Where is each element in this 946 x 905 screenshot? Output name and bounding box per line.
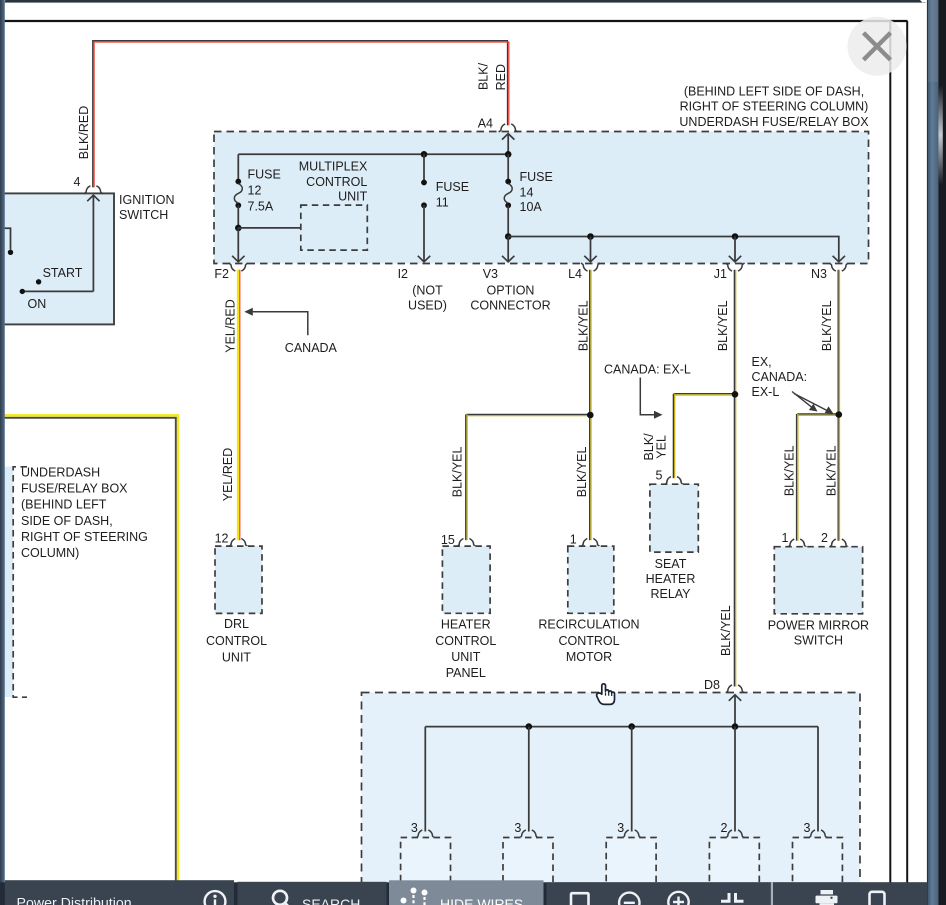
- A4 connector bump: [499, 124, 518, 132]
- label FUSE 11: [436, 180, 469, 210]
- svg-text:J1: J1: [714, 267, 727, 281]
- fuse F14 element: [504, 179, 512, 209]
- left window bar: [0, 0, 5, 905]
- svg-text:COLUMN): COLUMN): [21, 546, 79, 560]
- svg-text:UNDERDASH FUSE/RELAY BOX: UNDERDASH FUSE/RELAY BOX: [679, 115, 869, 129]
- svg-text:(BEHIND LEFT SIDE OF DASH,: (BEHIND LEFT SIDE OF DASH,: [684, 85, 864, 99]
- label BLK/YEL (mirror pin2): [825, 445, 839, 496]
- label BLK/YEL (J1 upper): [716, 300, 730, 351]
- svg-text:CONTROL: CONTROL: [558, 634, 619, 648]
- svg-text:ON: ON: [28, 297, 47, 311]
- label YEL/RED (upper): [224, 299, 238, 353]
- fuse 14 feed wire: [507, 154, 509, 181]
- svg-text:CONNECTOR: CONNECTOR: [470, 299, 550, 313]
- wire BLK/YEL branch to mirror pin1: [797, 414, 839, 541]
- EX pointer arrows: [792, 392, 834, 414]
- svg-text:RIGHT OF STEERING COLUMN): RIGHT OF STEERING COLUMN): [680, 100, 869, 114]
- label (BEHIND LEFT SIDE OF DASH...): [679, 85, 869, 130]
- svg-text:7.5A: 7.5A: [248, 200, 274, 214]
- svg-text:MULTIPLEX: MULTIPLEX: [299, 159, 368, 173]
- component box 1 (bottom): [401, 838, 451, 898]
- J1 drop wire + arrow: [729, 237, 741, 263]
- F2 output wire + arrow: [232, 228, 244, 262]
- svg-text:BLK/YEL: BLK/YEL: [825, 445, 839, 496]
- V3 output wire + arrow: [502, 237, 514, 263]
- svg-text:MOTOR: MOTOR: [566, 650, 612, 664]
- label IGNITION SWITCH: [119, 193, 175, 222]
- label POWER MIRROR SWITCH: [768, 618, 869, 647]
- highlighted box (yellow outline component): [0, 415, 178, 905]
- info icon: [205, 891, 226, 905]
- label START: [43, 266, 83, 280]
- fuse 14 output wire: [507, 205, 509, 236]
- recirculation control motor box: [568, 546, 614, 613]
- svg-text:POWER MIRROR: POWER MIRROR: [768, 618, 869, 632]
- svg-text:1: 1: [570, 533, 577, 547]
- heater control unit panel box: [442, 546, 490, 613]
- label RECIRCULATION CONTROL MOTOR: [538, 618, 639, 664]
- svg-text:BLK/YEL: BLK/YEL: [782, 445, 796, 496]
- svg-text:2: 2: [821, 531, 828, 545]
- label FUSE 14 10A: [520, 170, 553, 214]
- fuse 12 output wire: [237, 205, 239, 228]
- pin 4 label: [74, 175, 81, 189]
- node D8 label: [704, 678, 720, 692]
- diagram page top border: [5, 20, 908, 22]
- pin 5 label+bump: [656, 469, 684, 485]
- svg-text:IGNITION: IGNITION: [119, 193, 175, 207]
- junction dots on bottom bus: [526, 723, 739, 730]
- svg-text:L4: L4: [568, 267, 582, 281]
- svg-text:EX-L: EX-L: [752, 385, 780, 399]
- label BLK/YEL (heater drop): [451, 446, 465, 497]
- svg-text:CANADA:: CANADA:: [752, 370, 808, 384]
- svg-text:A4: A4: [478, 117, 493, 131]
- multiplex control unit box: [301, 205, 368, 250]
- svg-text:DRL: DRL: [224, 617, 249, 631]
- wire BLK/YEL (J1 down to D8): [734, 270, 735, 687]
- bus wire inside fuse box (upper): [238, 153, 508, 155]
- D8 connector bump: [726, 685, 745, 693]
- label CANADA: EX-L: [604, 362, 691, 376]
- contact ON dot: [20, 289, 25, 294]
- svg-text:CONTROL: CONTROL: [206, 634, 267, 648]
- pin 12 bump: [229, 539, 248, 547]
- component box 2 (bottom): [503, 838, 553, 898]
- svg-text:RED: RED: [494, 64, 508, 90]
- pin 15 label+bump: [441, 533, 476, 547]
- svg-text:2: 2: [721, 821, 728, 835]
- svg-text:12: 12: [215, 532, 229, 546]
- svg-text:CONTROL: CONTROL: [435, 634, 496, 648]
- node A4 label: [478, 117, 493, 131]
- A4 internal arrow: [502, 134, 514, 155]
- toolbar section Power Distribution: [5, 880, 234, 905]
- wire BLK/YEL (L4 down): [590, 270, 591, 540]
- junction dot J1 tap: [732, 233, 739, 240]
- right bezel stripe: [938, 0, 946, 905]
- svg-text:UNDERDASH: UNDERDASH: [21, 466, 100, 480]
- label OPTION CONNECTOR: [470, 284, 550, 313]
- svg-text:YEL/RED: YEL/RED: [221, 448, 235, 502]
- svg-text:FUSE: FUSE: [436, 180, 469, 194]
- svg-text:CANADA: CANADA: [285, 341, 338, 355]
- wire YEL/RED (F2 to DRL): [238, 270, 240, 540]
- junction dot fuse14 bus: [505, 233, 512, 240]
- svg-text:HEATER: HEATER: [646, 572, 696, 586]
- label BLK/ YEL (relay drop): [642, 433, 669, 461]
- fuse 12 feed wire: [237, 154, 239, 181]
- svg-text:HIDE WIRES: HIDE WIRES: [440, 896, 523, 905]
- toolbar section print/export: [773, 882, 928, 905]
- I2 output wire + arrow: [418, 205, 430, 262]
- toolbar separator: [771, 882, 773, 905]
- N3 arrow: [833, 256, 845, 262]
- svg-text:N3: N3: [811, 267, 827, 281]
- svg-text:3: 3: [804, 821, 811, 835]
- svg-text:3: 3: [617, 821, 624, 835]
- pin 3 label+bump (box3): [617, 821, 641, 838]
- junction dot A4/bus: [505, 151, 512, 158]
- pin 3 label+bump (box5): [804, 821, 828, 838]
- bus wire inside bottom box: [425, 726, 818, 728]
- junction dot fuse12/multiplex: [235, 225, 242, 232]
- fuse 11 feed wire: [423, 154, 425, 182]
- label YEL/RED (lower): [221, 448, 235, 502]
- contact START dot: [36, 279, 41, 284]
- CANADA EX-L pointer arrow: [640, 378, 662, 419]
- svg-text:YEL: YEL: [655, 435, 669, 459]
- DRL control unit box: [215, 546, 262, 613]
- svg-text:START: START: [43, 266, 83, 280]
- label EX, CANADA: EX-L: [752, 355, 808, 399]
- pin N3 bump+label: [811, 263, 848, 281]
- pin 3 label+bump (box2): [514, 821, 538, 838]
- component box 4 (bottom): [709, 838, 759, 898]
- svg-text:BLK/: BLK/: [476, 62, 490, 90]
- svg-text:BLK/YEL: BLK/YEL: [576, 300, 590, 351]
- svg-text:(NOT: (NOT: [412, 284, 443, 298]
- wire to multiplex control unit: [238, 227, 300, 229]
- label BLK/YEL (L4 upper): [576, 300, 590, 351]
- underdash fuse/relay box (bottom): [362, 693, 861, 905]
- svg-text:14: 14: [520, 186, 534, 200]
- ignition switch internal arrow to pin 4: [87, 195, 99, 291]
- toolbar background: [0, 882, 928, 905]
- pin I2 label: [398, 267, 408, 281]
- label SEAT HEATER RELAY: [646, 557, 696, 601]
- svg-text:RIGHT OF STEERING: RIGHT OF STEERING: [21, 530, 148, 544]
- component box 3 (bottom): [606, 838, 656, 898]
- label CANADA: [285, 341, 338, 355]
- wire BLK/YEL branch to heater control: [466, 414, 591, 540]
- label BLK/RED (left wire): [77, 106, 91, 160]
- svg-text:USED): USED): [408, 299, 447, 313]
- svg-text:UNIT: UNIT: [451, 650, 481, 664]
- drop wire 1: [424, 727, 426, 832]
- drop wire 3: [631, 727, 633, 832]
- svg-text:SEAT: SEAT: [655, 557, 687, 571]
- svg-text:5: 5: [656, 469, 663, 483]
- window inner right border: [906, 21, 908, 884]
- svg-text:HEATER: HEATER: [441, 618, 491, 632]
- pin V3 label: [483, 267, 498, 281]
- bus wire inside fuse box (lower): [508, 237, 839, 263]
- svg-text:CANADA: EX-L: CANADA: EX-L: [604, 362, 691, 376]
- svg-text:SWITCH: SWITCH: [119, 208, 168, 222]
- svg-text:UNIT: UNIT: [338, 190, 368, 204]
- battery feed stub: [0, 228, 13, 255]
- toolbar section SEARCH: [238, 882, 387, 905]
- CANADA pointer arrow: [244, 308, 307, 335]
- svg-text:V3: V3: [483, 267, 498, 281]
- label MULTIPLEX CONTROL UNIT: [299, 159, 368, 203]
- pin 12 label: [215, 532, 229, 546]
- off-sheet underdash box strip: [0, 467, 27, 698]
- svg-text:YEL/RED: YEL/RED: [224, 299, 238, 353]
- pin 2 label+bump (box4): [721, 821, 745, 838]
- wire BLK/RED (ignition pin 4 to A4): [93, 41, 509, 188]
- svg-text:BLK/YEL: BLK/YEL: [719, 605, 733, 656]
- node dot at N3 branch: [836, 411, 843, 418]
- svg-text:RELAY: RELAY: [650, 587, 691, 601]
- label ON: [28, 297, 47, 311]
- svg-text:D8: D8: [704, 678, 720, 692]
- svg-text:BLK/YEL: BLK/YEL: [716, 300, 730, 351]
- node dot at L4 branch: [587, 412, 594, 419]
- label FUSE 12 7.5A: [248, 168, 281, 214]
- svg-text:F2: F2: [214, 267, 229, 281]
- component box 5 (bottom): [793, 838, 843, 898]
- svg-text:OPTION: OPTION: [487, 284, 535, 298]
- label HEATER CONTROL UNIT PANEL: [435, 618, 496, 681]
- svg-text:BLK/YEL: BLK/YEL: [451, 446, 465, 497]
- pin 2 label+bump (mirror): [821, 531, 848, 547]
- svg-text:I2: I2: [398, 267, 408, 281]
- power mirror switch box: [774, 547, 862, 614]
- node dot at J1 branch: [732, 391, 739, 398]
- ignition switch wiper wire: [22, 290, 93, 292]
- seat heater relay box: [650, 484, 698, 552]
- ignition switch box: [0, 193, 114, 324]
- svg-text:FUSE/RELAY BOX: FUSE/RELAY BOX: [21, 482, 128, 496]
- label (NOT USED): [408, 284, 447, 313]
- drop wire 2: [528, 727, 530, 832]
- svg-text:SIDE OF DASH,: SIDE OF DASH,: [21, 514, 113, 528]
- junction dot L4 tap: [587, 233, 594, 240]
- svg-text:SEARCH: SEARCH: [302, 896, 360, 905]
- pin F2 bump+label: [214, 263, 247, 281]
- label BLK/YEL (mirror pin1): [782, 445, 796, 496]
- pin 4 connector bump: [84, 186, 103, 194]
- svg-text:(BEHIND LEFT: (BEHIND LEFT: [21, 498, 107, 512]
- pin J1 bump+label: [714, 263, 745, 281]
- pin 1 label+bump (recirc): [570, 533, 600, 547]
- toolbar section HIDE WIRES: [389, 880, 544, 905]
- wire BLK/YEL branch to seat heater relay: [673, 394, 735, 479]
- underdash fuse/relay box (top): [214, 132, 869, 264]
- pin 1 label+bump (mirror): [781, 531, 806, 547]
- toolbar section zoom tools: [547, 882, 771, 905]
- svg-text:FUSE: FUSE: [520, 170, 553, 184]
- pin L4 bump+label: [568, 263, 600, 281]
- label DRL CONTROL UNIT: [206, 617, 267, 664]
- svg-text:SWITCH: SWITCH: [794, 633, 843, 647]
- svg-text:EX,: EX,: [752, 355, 772, 369]
- svg-text:BLK/RED: BLK/RED: [77, 106, 91, 160]
- svg-text:UNIT: UNIT: [222, 650, 252, 664]
- svg-text:CONTROL: CONTROL: [306, 175, 367, 189]
- svg-text:FUSE: FUSE: [248, 168, 281, 182]
- svg-text:BLK/YEL: BLK/YEL: [820, 300, 834, 351]
- fuse F11 terminals (not used): [421, 180, 427, 209]
- svg-text:3: 3: [514, 821, 521, 835]
- svg-text:Power Distribution: Power Distribution: [17, 896, 132, 905]
- right scrollbar bar: [927, 0, 938, 905]
- fuse F12 element: [234, 179, 242, 209]
- svg-text:1: 1: [781, 531, 788, 545]
- svg-text:3: 3: [411, 821, 418, 835]
- svg-text:15: 15: [441, 533, 455, 547]
- svg-text:10A: 10A: [520, 200, 543, 214]
- diagram page right border: [889, 21, 891, 884]
- svg-text:PANEL: PANEL: [446, 666, 486, 680]
- svg-text:12: 12: [248, 184, 262, 198]
- label UNDERDASH FUSE/RELAY BOX (BEHIND LEFT SIDE OF DASH, RIGHT OF STEERING COLUMN): [21, 466, 148, 561]
- svg-text:4: 4: [74, 175, 81, 189]
- pin 3 label+bump (box1): [411, 821, 435, 838]
- svg-text:11: 11: [436, 195, 449, 209]
- D8 internal arrow: [729, 695, 741, 727]
- mouse cursor (hand): [597, 684, 615, 705]
- drop wire 5: [817, 727, 819, 832]
- svg-text:RECIRCULATION: RECIRCULATION: [538, 618, 639, 632]
- wire BLK/YEL (N3 down): [838, 270, 839, 541]
- label BLK/YEL (J1 lower): [719, 605, 733, 656]
- close button: [848, 17, 907, 76]
- label BLK/YEL (N3 upper): [820, 300, 834, 351]
- L4 drop wire + arrow: [584, 237, 596, 263]
- drop wire 4 (D8 continuation): [734, 727, 736, 832]
- junction dot fuse11 tap: [421, 151, 428, 158]
- label BLK/ RED (A4 wire): [476, 62, 508, 90]
- svg-text:BLK/YEL: BLK/YEL: [575, 446, 589, 497]
- top window strip: [0, 0, 928, 7]
- label BLK/YEL (recirc drop): [575, 446, 589, 497]
